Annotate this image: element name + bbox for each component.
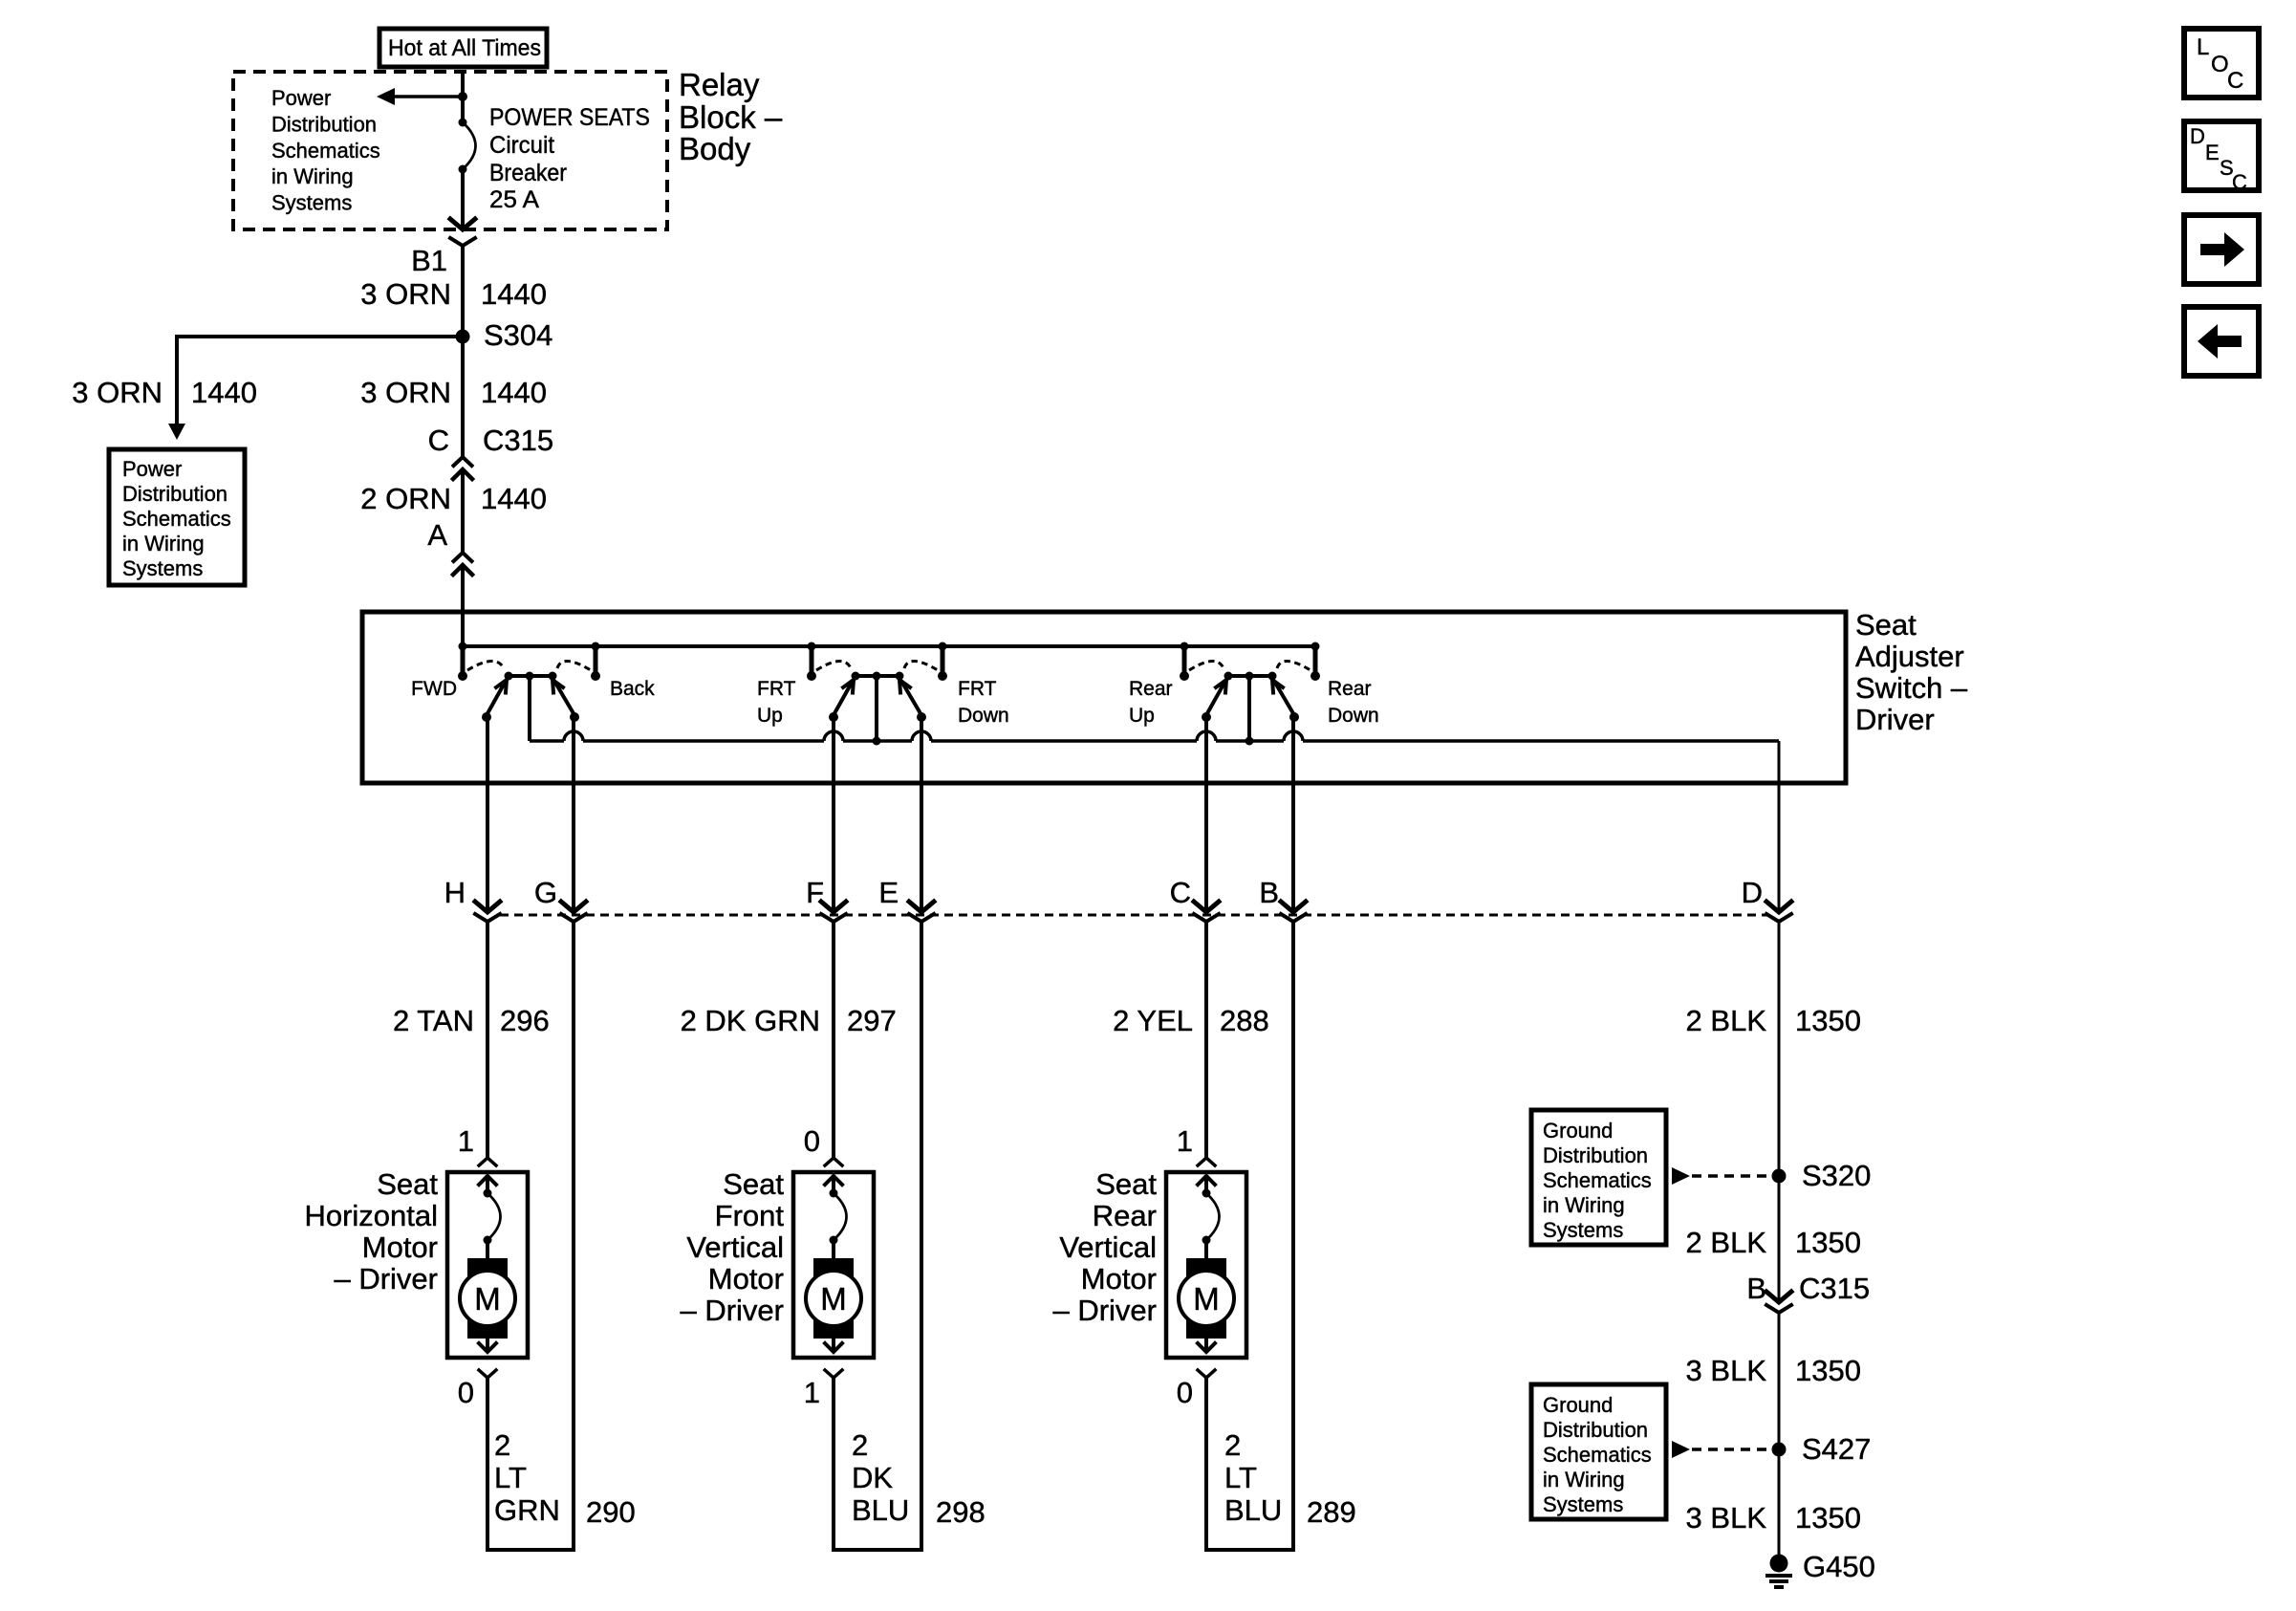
svg-text:Up: Up: [1129, 705, 1155, 727]
wire: return bus drop to pin D: [1778, 741, 1781, 912]
seat adjuster switch - driver (outline box): [362, 612, 1846, 783]
icon box DESC: [2184, 121, 2259, 190]
wire: 2 BLK 1350 ground wire from pin D: [1778, 922, 1781, 1176]
svg-text:1440: 1440: [481, 376, 547, 409]
svg-text:FRT: FRT: [958, 678, 997, 700]
switch Rear: coupling (dashed): [1189, 661, 1224, 670]
motor pin arrow (bottom): [832, 1339, 835, 1352]
motor connector skirt (bottom): [479, 1370, 496, 1378]
svg-text:Schematics: Schematics: [1543, 1443, 1652, 1467]
svg-text:in Wiring: in Wiring: [1543, 1193, 1625, 1217]
switch FRT: coupling (dashed): [816, 661, 851, 670]
motor: Seat Rear Vertical Motor – Driver (outline): [1166, 1172, 1246, 1358]
svg-text:D: D: [1742, 876, 1763, 909]
wire: breaker output: [461, 169, 465, 229]
switch section FWD/Back: supply drops: [459, 642, 467, 651]
svg-text:Rear: Rear: [1093, 1199, 1157, 1232]
svg-text:E: E: [2205, 141, 2220, 164]
svg-text:Down: Down: [958, 705, 1009, 727]
svg-text:Power: Power: [271, 86, 331, 110]
svg-text:in Wiring: in Wiring: [1543, 1468, 1625, 1491]
svg-text:G450: G450: [1803, 1550, 1875, 1583]
wire: battery feed into relay block: [461, 72, 465, 122]
svg-text:GRN: GRN: [494, 1493, 560, 1527]
node: branch junction in relay block: [458, 92, 467, 101]
svg-text:Horizontal: Horizontal: [304, 1199, 438, 1232]
power feed label box: Hot at All Times: [379, 29, 547, 67]
svg-text:S304: S304: [484, 318, 552, 352]
svg-text:C315: C315: [483, 424, 553, 457]
svg-text:2 YEL: 2 YEL: [1113, 1004, 1193, 1037]
svg-text:1: 1: [804, 1376, 820, 1409]
connector pin H: [475, 902, 500, 912]
svg-text:297: 297: [847, 1004, 897, 1037]
svg-text:Seat: Seat: [1855, 608, 1917, 642]
svg-text:Rear: Rear: [1129, 678, 1173, 700]
motor symbol M: [1186, 1258, 1226, 1279]
circuit breaker: POWER SEATS Circuit Breaker 25 A: [459, 119, 467, 127]
switch FWD/Back: movable arms: [487, 683, 505, 715]
svg-text:C: C: [2227, 68, 2243, 94]
svg-text:G: G: [534, 876, 557, 909]
svg-text:– Driver: – Driver: [1052, 1294, 1157, 1327]
svg-text:25 A: 25 A: [489, 186, 539, 213]
svg-text:Distribution: Distribution: [1543, 1143, 1648, 1167]
svg-text:L: L: [2197, 34, 2209, 60]
svg-text:Motor: Motor: [1081, 1262, 1157, 1295]
svg-text:Up: Up: [757, 705, 783, 727]
svg-text:Relay: Relay: [679, 67, 760, 102]
svg-text:1440: 1440: [481, 482, 547, 515]
switch section Rear: supply drops: [1180, 642, 1189, 651]
switch Rear: stationary contacts: [1180, 671, 1189, 681]
motor thermal protector: [830, 1189, 838, 1198]
svg-text:Systems: Systems: [1543, 1218, 1623, 1242]
svg-text:FWD: FWD: [411, 678, 457, 700]
wire: 3 ORN from S304 to C315: [461, 337, 465, 457]
reference box: Ground Distribution Schematics in Wiring Systems (upper): [1531, 1110, 1666, 1245]
splice S320: [1772, 1169, 1787, 1184]
svg-text:2 DK GRN: 2 DK GRN: [681, 1004, 820, 1037]
svg-text:Motor: Motor: [708, 1262, 784, 1295]
svg-text:F: F: [806, 876, 824, 909]
svg-text:C315: C315: [1799, 1272, 1870, 1305]
svg-text:3 ORN: 3 ORN: [360, 277, 451, 311]
motor thermal protector: [484, 1189, 492, 1198]
svg-text:M: M: [1193, 1281, 1220, 1317]
wire: 3 ORN 1440 from B1 to S304: [461, 246, 465, 337]
svg-text:DK: DK: [852, 1461, 893, 1494]
svg-text:M: M: [820, 1281, 847, 1317]
svg-text:1: 1: [458, 1124, 474, 1158]
svg-text:Power: Power: [122, 457, 182, 481]
switch FWD/Back: stationary contacts: [458, 671, 467, 681]
connector pin E: [909, 902, 934, 912]
wire: motor return loop: [487, 922, 574, 1550]
svg-text:Circuit: Circuit: [489, 132, 554, 159]
motor connector skirt (top): [1198, 1158, 1215, 1165]
icon box LOC: [2184, 29, 2259, 98]
svg-text:Block –: Block –: [679, 99, 783, 135]
motor connector skirt (top): [479, 1158, 496, 1165]
relay block - body (dashed outline): [233, 72, 667, 229]
switch FWD/Back: coupling (dashed): [467, 661, 504, 670]
svg-text:C: C: [1170, 876, 1191, 909]
svg-text:0: 0: [458, 1376, 474, 1409]
connector pin A of seat adjuster switch: [454, 553, 472, 561]
svg-text:Schematics: Schematics: [122, 507, 231, 531]
svg-text:290: 290: [586, 1495, 636, 1529]
svg-text:Schematics: Schematics: [1543, 1168, 1652, 1192]
svg-text:Breaker: Breaker: [489, 160, 567, 186]
svg-text:FRT: FRT: [757, 678, 796, 700]
switch FRT: wiper bar: [856, 674, 899, 678]
svg-text:in Wiring: in Wiring: [271, 164, 354, 188]
svg-text:Seat: Seat: [1095, 1167, 1157, 1201]
svg-text:Hot at All Times: Hot at All Times: [388, 35, 541, 61]
connector pin B1 (relay block output): [450, 219, 475, 229]
connector row dashed boundary: [500, 914, 1767, 917]
svg-text:BLU: BLU: [852, 1493, 909, 1527]
switch FRT: movable arms: [834, 683, 852, 715]
motor connector skirt (bottom): [1198, 1370, 1215, 1378]
motor symbol M: [813, 1258, 854, 1279]
svg-text:Down: Down: [1328, 705, 1379, 727]
svg-text:289: 289: [1307, 1495, 1356, 1529]
svg-text:3 ORN: 3 ORN: [72, 376, 162, 409]
svg-text:C: C: [428, 424, 449, 457]
svg-text:Ground: Ground: [1543, 1393, 1613, 1417]
svg-text:– Driver: – Driver: [680, 1294, 784, 1327]
wire: to ground G450: [1778, 1449, 1781, 1558]
wire: switch outputs to connector: [486, 717, 489, 912]
svg-text:in Wiring: in Wiring: [122, 532, 205, 555]
svg-text:LT: LT: [494, 1461, 527, 1494]
reference box: Ground Distribution Schematics in Wiring Systems (lower): [1531, 1384, 1666, 1519]
svg-text:1440: 1440: [481, 277, 547, 311]
wire: pin A into switch: [461, 565, 465, 646]
wire: 2 ORN 1440 to seat adjuster switch: [461, 469, 465, 553]
svg-text:O: O: [2211, 52, 2229, 77]
ground G450: [1770, 1555, 1788, 1573]
svg-text:Vertical: Vertical: [686, 1230, 784, 1264]
svg-text:3 BLK: 3 BLK: [1686, 1354, 1767, 1387]
connector pin C: [1194, 902, 1219, 912]
wire: 3 BLK 1350 to S427: [1778, 1313, 1781, 1449]
wire: motor return loop: [1206, 922, 1293, 1550]
svg-text:B: B: [1259, 876, 1279, 909]
svg-text:1: 1: [1177, 1124, 1193, 1158]
splice S304: [456, 330, 470, 344]
svg-text:POWER SEATS: POWER SEATS: [489, 104, 650, 131]
motor connector skirt (top): [825, 1158, 842, 1165]
motor: Seat Front Vertical Motor – Driver (outline): [793, 1172, 874, 1358]
switch Rear: wiper common leg: [1247, 676, 1251, 741]
motor symbol M: [467, 1258, 508, 1279]
svg-text:0: 0: [1177, 1376, 1193, 1409]
svg-text:Systems: Systems: [122, 556, 203, 580]
svg-text:H: H: [444, 876, 466, 909]
svg-text:Back: Back: [610, 678, 655, 700]
wire: switch supply bus: [463, 644, 1315, 648]
icon box arrow right: [2184, 215, 2259, 284]
svg-text:A: A: [427, 518, 447, 552]
svg-text:D: D: [2190, 124, 2205, 148]
switch FRT: wiper common leg: [875, 676, 878, 741]
wire: feed to motor at x=1262: [1204, 922, 1208, 1158]
switch FWD/Back: wiper common leg: [528, 676, 531, 741]
wire: branch to power distribution (arrow left): [394, 95, 463, 98]
motor pin arrow (top): [1198, 1176, 1215, 1185]
svg-text:Systems: Systems: [271, 191, 352, 215]
svg-text:Distribution: Distribution: [1543, 1418, 1648, 1442]
switch section FRT: supply drops: [808, 642, 816, 651]
motor pin arrow (bottom): [1204, 1339, 1208, 1352]
switch Rear: wiper bar: [1228, 674, 1272, 678]
node: FRT wiper to return bus: [873, 737, 881, 746]
svg-text:– Driver: – Driver: [334, 1262, 438, 1295]
motor: Seat Horizontal Motor – Driver (outline): [447, 1172, 528, 1358]
svg-text:S320: S320: [1802, 1159, 1871, 1192]
svg-text:3 ORN: 3 ORN: [360, 376, 451, 409]
node: Rear wiper to return bus: [1245, 737, 1254, 746]
svg-text:288: 288: [1220, 1004, 1269, 1037]
svg-text:Front: Front: [715, 1199, 785, 1232]
wire: feed to motor at x=872: [832, 922, 835, 1158]
svg-text:2: 2: [852, 1428, 868, 1462]
svg-text:Distribution: Distribution: [271, 112, 377, 136]
svg-text:2 TAN: 2 TAN: [393, 1004, 474, 1037]
svg-text:2: 2: [494, 1428, 510, 1462]
svg-text:S427: S427: [1802, 1432, 1871, 1466]
reference box: Power Distribution Schematics in Wiring Systems: [109, 449, 245, 585]
connector pin B: [1281, 902, 1306, 912]
splice S427: [1772, 1443, 1787, 1457]
svg-text:BLU: BLU: [1224, 1493, 1282, 1527]
wire: feed to motor at x=510: [486, 922, 489, 1158]
svg-text:B: B: [1746, 1272, 1766, 1305]
svg-text:3 BLK: 3 BLK: [1686, 1501, 1767, 1535]
dashed link to S320: [1672, 1167, 1690, 1185]
icon box arrow left: [2184, 307, 2259, 376]
svg-text:Driver: Driver: [1855, 703, 1935, 736]
wire: motor return loop: [834, 922, 921, 1550]
svg-text:1350: 1350: [1795, 1354, 1861, 1387]
connector pin D: [1766, 902, 1791, 912]
svg-text:1350: 1350: [1795, 1501, 1861, 1535]
svg-text:Seat: Seat: [723, 1167, 784, 1201]
svg-text:Seat: Seat: [377, 1167, 438, 1201]
connector pin G: [561, 902, 586, 912]
svg-text:Systems: Systems: [1543, 1492, 1623, 1516]
svg-text:1350: 1350: [1795, 1004, 1861, 1037]
svg-text:Motor: Motor: [362, 1230, 438, 1264]
svg-text:296: 296: [500, 1004, 550, 1037]
svg-text:LT: LT: [1224, 1461, 1257, 1494]
svg-text:2 BLK: 2 BLK: [1686, 1226, 1767, 1259]
svg-text:B1: B1: [411, 244, 447, 277]
svg-text:Rear: Rear: [1328, 678, 1372, 700]
svg-text:E: E: [878, 876, 899, 909]
dashed link to S427: [1672, 1441, 1690, 1458]
svg-text:1350: 1350: [1795, 1226, 1861, 1259]
connector C315 pin B: [1766, 1292, 1791, 1302]
svg-text:2 ORN: 2 ORN: [360, 482, 451, 515]
svg-text:0: 0: [804, 1124, 820, 1158]
motor connector skirt (bottom): [825, 1370, 842, 1378]
connector C315 pin C: [454, 457, 472, 466]
wire: to C315 pin B: [1778, 1176, 1781, 1302]
switch Rear: movable arms: [1206, 683, 1224, 715]
motor pin arrow (top): [479, 1176, 496, 1185]
svg-text:Body: Body: [679, 131, 751, 166]
svg-text:298: 298: [936, 1495, 986, 1529]
svg-text:Switch –: Switch –: [1855, 671, 1968, 705]
motor pin arrow (bottom): [486, 1339, 489, 1352]
connector pin F: [821, 902, 846, 912]
motor pin arrow (top): [825, 1176, 842, 1185]
svg-text:Vertical: Vertical: [1059, 1230, 1157, 1264]
svg-text:Ground: Ground: [1543, 1119, 1613, 1143]
svg-text:2: 2: [1224, 1428, 1241, 1462]
svg-text:2 BLK: 2 BLK: [1686, 1004, 1767, 1037]
svg-text:C: C: [2232, 170, 2247, 194]
wire: switch return bus to pin D: [528, 676, 531, 741]
svg-text:M: M: [474, 1281, 501, 1317]
switch FRT: stationary contacts: [807, 671, 816, 681]
wire: branch from S304 to power distribution schematics: [177, 337, 463, 425]
motor thermal protector: [1202, 1189, 1211, 1198]
switch FWD/Back: wiper bar: [509, 674, 552, 678]
svg-text:Distribution: Distribution: [122, 482, 227, 506]
svg-text:Schematics: Schematics: [271, 139, 380, 163]
svg-text:1440: 1440: [191, 376, 257, 409]
svg-text:Adjuster: Adjuster: [1855, 640, 1964, 673]
